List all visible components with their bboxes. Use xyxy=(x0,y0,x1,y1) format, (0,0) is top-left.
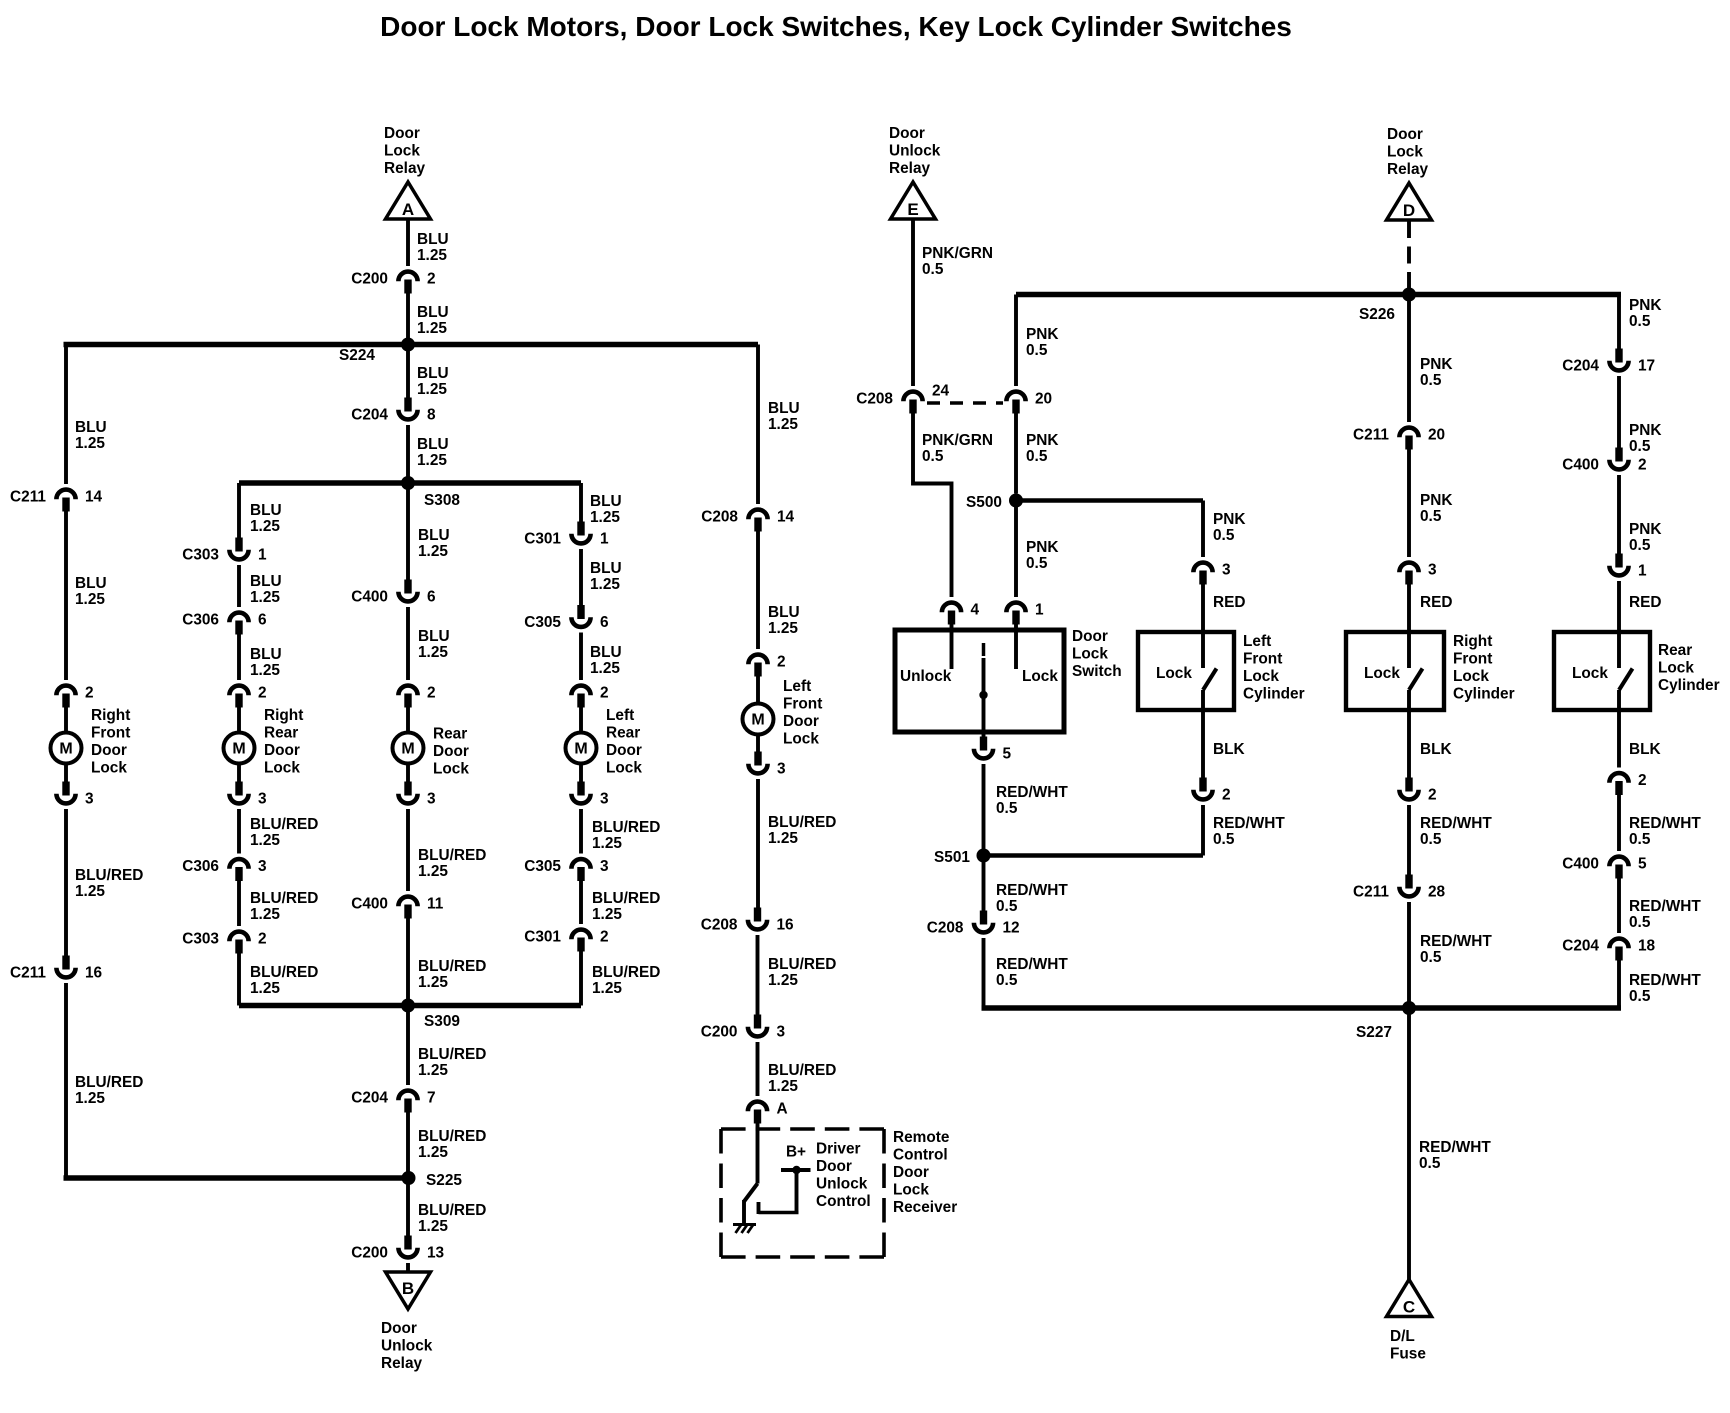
svg-text:C303: C303 xyxy=(182,547,219,564)
wire A to C200-2 xyxy=(406,220,410,267)
svg-text:1.25: 1.25 xyxy=(75,883,105,900)
svg-text:C208: C208 xyxy=(856,391,893,408)
svg-text:6: 6 xyxy=(427,589,436,606)
svg-text:Lock: Lock xyxy=(1453,668,1489,685)
wire B+ to contact xyxy=(795,1170,799,1213)
svg-text:4: 4 xyxy=(971,602,980,619)
motor pin 3 xyxy=(235,782,242,796)
svg-text:1.25: 1.25 xyxy=(768,1078,798,1095)
motor pin 3 xyxy=(404,782,411,796)
svg-text:Lock: Lock xyxy=(433,761,469,778)
svg-text:2: 2 xyxy=(1638,772,1647,789)
splice S227 bus xyxy=(982,1005,1622,1010)
svg-text:BLU: BLU xyxy=(417,365,449,382)
svg-text:PNK: PNK xyxy=(1026,539,1059,556)
svg-text:3: 3 xyxy=(258,858,267,875)
wire pin2 to motor xyxy=(406,707,410,733)
svg-text:Door: Door xyxy=(816,1158,852,1175)
wire pin2 to motor xyxy=(237,707,241,733)
svg-text:Door: Door xyxy=(91,742,127,759)
connector C306 pin 3 xyxy=(229,859,248,869)
svg-text:Right: Right xyxy=(264,707,303,724)
connector C211 pin 16 xyxy=(62,956,69,970)
wire pin5 to S501 xyxy=(982,764,986,856)
svg-text:0.5: 0.5 xyxy=(1213,831,1235,848)
svg-text:0.5: 0.5 xyxy=(1629,914,1651,931)
connector C303 pin 2 xyxy=(229,932,248,942)
wire C204-8 to S308 xyxy=(406,425,410,483)
svg-text:Left: Left xyxy=(1243,633,1271,650)
svg-text:1.25: 1.25 xyxy=(768,620,798,637)
splice S308 bus xyxy=(239,480,581,485)
svg-text:BLU: BLU xyxy=(250,573,282,590)
connector C303 pin 1 xyxy=(235,538,242,552)
svg-text:Front: Front xyxy=(1243,651,1282,668)
svg-text:1.25: 1.25 xyxy=(418,863,448,880)
wire pin2 to motor xyxy=(579,707,583,733)
svg-text:1.25: 1.25 xyxy=(418,1062,448,1079)
wire S501 to C208-12 xyxy=(982,856,986,912)
svg-text:3: 3 xyxy=(85,791,94,808)
svg-text:BLU/RED: BLU/RED xyxy=(418,1128,486,1145)
wire C303-2 to S309 xyxy=(237,953,241,1006)
svg-text:0.5: 0.5 xyxy=(1026,555,1048,572)
wire S224 right drop xyxy=(756,345,760,505)
svg-text:0.5: 0.5 xyxy=(1026,342,1048,359)
connector C208 pin 14 xyxy=(748,510,767,520)
wire pin2 to C211-28 xyxy=(1407,805,1411,876)
cylinder switch blade xyxy=(1203,669,1217,691)
svg-text:1.25: 1.25 xyxy=(250,832,280,849)
svg-text:M: M xyxy=(574,741,587,758)
svg-text:0.5: 0.5 xyxy=(1420,831,1442,848)
svg-text:M: M xyxy=(751,712,764,729)
svg-text:1.25: 1.25 xyxy=(75,435,105,452)
svg-text:C208: C208 xyxy=(927,920,964,937)
svg-text:1.25: 1.25 xyxy=(75,1090,105,1107)
svg-text:Unlock: Unlock xyxy=(381,1338,433,1355)
cylinder pin 2 xyxy=(1405,778,1412,792)
wire C208-12 to S227 xyxy=(982,938,986,1008)
svg-text:2: 2 xyxy=(777,654,786,671)
svg-text:S501: S501 xyxy=(934,849,970,866)
svg-text:S226: S226 xyxy=(1359,306,1395,323)
svg-text:3: 3 xyxy=(427,791,436,808)
svg-text:BLU: BLU xyxy=(250,646,282,663)
svg-text:24: 24 xyxy=(932,383,950,400)
connector C306 pin 6 xyxy=(229,613,248,623)
svg-text:C211: C211 xyxy=(10,965,46,982)
svg-text:1.25: 1.25 xyxy=(590,509,620,526)
svg-text:11: 11 xyxy=(427,896,444,913)
motor pin 2 xyxy=(748,655,767,665)
svg-text:BLU: BLU xyxy=(417,436,449,453)
svg-text:Unlock: Unlock xyxy=(889,143,941,160)
svg-text:Lock: Lock xyxy=(1658,660,1694,677)
svg-text:0.5: 0.5 xyxy=(1420,372,1442,389)
svg-text:1.25: 1.25 xyxy=(768,830,798,847)
svg-text:BLU: BLU xyxy=(590,493,622,510)
relay terminal A xyxy=(386,182,431,219)
svg-text:2: 2 xyxy=(427,271,436,288)
svg-text:RED/WHT: RED/WHT xyxy=(1420,933,1492,950)
svg-text:C204: C204 xyxy=(1562,358,1599,375)
svg-text:1: 1 xyxy=(1035,602,1044,619)
svg-text:RED/WHT: RED/WHT xyxy=(1419,1139,1491,1156)
wire C400-11 to S309 xyxy=(406,918,410,1006)
svg-text:1.25: 1.25 xyxy=(417,320,447,337)
wire pin2 to motor xyxy=(64,707,68,733)
wire S500 drop to pin 3 xyxy=(1201,501,1205,558)
svg-text:Lock: Lock xyxy=(384,143,420,160)
wire blade through box xyxy=(1201,690,1205,779)
wire S224 to C204-8 xyxy=(406,345,410,399)
wire pin3 into box xyxy=(1407,584,1411,669)
svg-text:18: 18 xyxy=(1638,938,1656,955)
svg-text:A: A xyxy=(402,200,414,219)
svg-text:BLU/RED: BLU/RED xyxy=(592,819,660,836)
wire pin4 into box xyxy=(950,624,954,670)
svg-text:0.5: 0.5 xyxy=(1629,313,1651,330)
connector C200 pin 2 xyxy=(398,272,417,282)
svg-text:2: 2 xyxy=(600,929,609,946)
svg-text:2: 2 xyxy=(1428,787,1437,804)
svg-text:C200: C200 xyxy=(351,1245,388,1262)
wire S226 right drop xyxy=(1617,292,1621,350)
svg-text:Cylinder: Cylinder xyxy=(1658,677,1720,694)
svg-text:Right: Right xyxy=(91,707,130,724)
svg-text:Relay: Relay xyxy=(1387,161,1429,178)
wire C208-24 to pin 4 (jog) xyxy=(913,413,952,598)
svg-text:S309: S309 xyxy=(424,1013,460,1030)
svg-text:1.25: 1.25 xyxy=(418,543,448,560)
svg-text:RED: RED xyxy=(1629,594,1662,611)
motor Right Front Door Lock xyxy=(51,733,82,764)
svg-text:2: 2 xyxy=(1638,457,1647,474)
svg-text:0.5: 0.5 xyxy=(1026,448,1048,465)
wire C400-6 to pin 2 xyxy=(406,607,410,680)
svg-text:14: 14 xyxy=(85,489,103,506)
motor pin 3 xyxy=(62,782,69,796)
svg-text:C305: C305 xyxy=(524,614,561,631)
wire pin20 to S500 xyxy=(1014,413,1018,494)
wire pin A into receiver xyxy=(756,1123,760,1184)
svg-text:RED/WHT: RED/WHT xyxy=(1629,972,1701,989)
connector C211 pin 14 xyxy=(56,490,75,500)
svg-text:B+: B+ xyxy=(786,1144,806,1161)
svg-text:C211: C211 xyxy=(1353,427,1389,444)
svg-text:5: 5 xyxy=(1003,746,1012,763)
svg-text:C400: C400 xyxy=(1562,457,1599,474)
connector C208 pin 24 xyxy=(903,392,922,402)
svg-text:1: 1 xyxy=(258,547,267,564)
svg-text:20: 20 xyxy=(1035,391,1052,408)
svg-text:1.25: 1.25 xyxy=(590,576,620,593)
Rear Lock Cylinder box xyxy=(1554,632,1650,710)
svg-text:Door: Door xyxy=(889,125,925,142)
connector C400 pin 5 xyxy=(1609,857,1628,867)
svg-text:1.25: 1.25 xyxy=(418,1218,448,1235)
svg-text:C301: C301 xyxy=(524,531,561,548)
svg-text:PNK: PNK xyxy=(1420,492,1453,509)
svg-text:6: 6 xyxy=(258,612,267,629)
svg-text:Relay: Relay xyxy=(381,1355,423,1372)
switch connector pin 20 xyxy=(1006,392,1025,402)
motor pin 3 xyxy=(754,752,761,766)
dashed wire D to S226 xyxy=(1407,221,1411,288)
connector C301 pin 2 xyxy=(571,930,590,940)
relay terminal B xyxy=(386,1272,431,1309)
svg-text:C211: C211 xyxy=(10,489,46,506)
svg-text:13: 13 xyxy=(427,1245,444,1262)
svg-text:Lock: Lock xyxy=(1572,665,1608,682)
connector C204 pin 8 xyxy=(404,398,411,412)
svg-text:Control: Control xyxy=(816,1193,871,1210)
wire C211-14 to pin 2 xyxy=(64,511,68,681)
motor pin 2 xyxy=(398,686,417,696)
Left Front Lock Cylinder box xyxy=(1138,632,1234,710)
svg-text:C305: C305 xyxy=(524,858,561,875)
wire C204-18 to S227 xyxy=(1617,960,1621,1009)
svg-text:C306: C306 xyxy=(182,858,219,875)
svg-text:PNK: PNK xyxy=(1629,521,1662,538)
cylinder pin 3 xyxy=(1399,563,1418,573)
svg-text:BLU/RED: BLU/RED xyxy=(768,1062,836,1079)
svg-text:0.5: 0.5 xyxy=(1420,949,1442,966)
cylinder switch blade xyxy=(1619,669,1633,691)
svg-text:BLU/RED: BLU/RED xyxy=(418,847,486,864)
svg-text:3: 3 xyxy=(777,761,786,778)
splice S501 xyxy=(984,853,1204,857)
svg-text:Door: Door xyxy=(783,713,819,730)
svg-text:Door: Door xyxy=(384,125,420,142)
splice S225 bus xyxy=(64,1175,409,1180)
svg-text:Door: Door xyxy=(264,742,300,759)
relay terminal D xyxy=(1387,183,1432,220)
svg-text:0.5: 0.5 xyxy=(922,448,944,465)
svg-text:Lock: Lock xyxy=(91,760,127,777)
wire C211-20 to pin 3 xyxy=(1407,449,1411,558)
svg-text:1: 1 xyxy=(1638,563,1647,580)
svg-text:1.25: 1.25 xyxy=(250,980,280,997)
svg-text:BLU: BLU xyxy=(418,628,450,645)
svg-text:1.25: 1.25 xyxy=(592,906,622,923)
svg-text:BLU: BLU xyxy=(417,231,449,248)
svg-text:BLK: BLK xyxy=(1213,741,1245,758)
svg-text:1.25: 1.25 xyxy=(592,980,622,997)
cylinder pin 1 xyxy=(1615,554,1622,568)
wire pin2 to C400-5 xyxy=(1617,794,1621,851)
wire C301-2 to S309 xyxy=(579,951,583,1006)
svg-text:28: 28 xyxy=(1428,884,1446,901)
motor Rear Door Lock xyxy=(393,733,424,764)
dashed link C208-24 to pin 20 xyxy=(927,401,1003,405)
svg-text:RED/WHT: RED/WHT xyxy=(1629,898,1701,915)
svg-text:BLU: BLU xyxy=(768,400,800,417)
svg-text:BLU: BLU xyxy=(417,304,449,321)
svg-text:S500: S500 xyxy=(966,494,1002,511)
svg-text:0.5: 0.5 xyxy=(1420,508,1442,525)
svg-text:0.5: 0.5 xyxy=(1213,527,1235,544)
svg-text:PNK/GRN: PNK/GRN xyxy=(922,432,993,449)
connector C208 pin 16 xyxy=(754,908,761,922)
svg-text:0.5: 0.5 xyxy=(996,898,1018,915)
svg-text:Front: Front xyxy=(783,696,822,713)
wire S500 to pin 1 xyxy=(1014,501,1018,598)
svg-text:C211: C211 xyxy=(1353,884,1389,901)
svg-text:Left: Left xyxy=(783,678,811,695)
svg-text:12: 12 xyxy=(1003,920,1020,937)
svg-text:Lock: Lock xyxy=(893,1182,929,1199)
svg-text:RED/WHT: RED/WHT xyxy=(996,784,1068,801)
connector C305 pin 3 xyxy=(571,859,590,869)
connector C211 pin 20 xyxy=(1399,428,1418,438)
switch pin 4 xyxy=(942,603,961,613)
svg-text:Relay: Relay xyxy=(384,160,426,177)
svg-text:BLU/RED: BLU/RED xyxy=(768,956,836,973)
wire C400-5 to C204-18 xyxy=(1617,878,1621,934)
svg-text:1.25: 1.25 xyxy=(417,247,447,264)
svg-text:Driver: Driver xyxy=(816,1141,861,1158)
splice S226 bus xyxy=(1016,292,1621,297)
wire pin2 to motor xyxy=(756,676,760,704)
svg-text:Door: Door xyxy=(606,742,642,759)
ground xyxy=(733,1223,756,1226)
switch toggle xyxy=(982,643,986,656)
cylinder switch blade xyxy=(1409,669,1423,691)
splice S500 xyxy=(1016,498,1203,502)
wire C400-2 to pin 1 xyxy=(1617,475,1621,555)
svg-text:Control: Control xyxy=(893,1147,948,1164)
splice S309 bus xyxy=(239,1003,581,1008)
svg-text:6: 6 xyxy=(600,614,609,631)
wire pin3 to C211-16 xyxy=(64,809,68,957)
motor pin 2 xyxy=(571,686,590,696)
svg-text:Lock: Lock xyxy=(1022,668,1058,685)
svg-text:0.5: 0.5 xyxy=(1629,438,1651,455)
wire C208-14 to pin 2 xyxy=(756,531,760,650)
svg-text:0.5: 0.5 xyxy=(922,261,944,278)
svg-text:Door: Door xyxy=(1072,628,1108,645)
wire C208-16 to C200-3 xyxy=(756,935,760,1016)
svg-text:C208: C208 xyxy=(701,917,738,934)
svg-text:1.25: 1.25 xyxy=(250,906,280,923)
svg-text:Rear: Rear xyxy=(606,725,640,742)
wire pin1 into box xyxy=(1617,581,1621,668)
svg-text:Lock: Lock xyxy=(783,731,819,748)
svg-text:BLU/RED: BLU/RED xyxy=(592,964,660,981)
svg-text:C200: C200 xyxy=(351,271,388,288)
wire C200-13 to B xyxy=(406,1263,410,1273)
svg-text:17: 17 xyxy=(1638,358,1655,375)
svg-text:E: E xyxy=(907,200,918,219)
svg-text:8: 8 xyxy=(427,407,436,424)
svg-text:Right: Right xyxy=(1453,633,1492,650)
svg-text:Door: Door xyxy=(381,1320,417,1337)
wire S226 to C211-20 xyxy=(1407,295,1411,423)
svg-text:1.25: 1.25 xyxy=(250,589,280,606)
connector C400 pin 11 xyxy=(398,897,417,907)
cylinder pin 2 xyxy=(1609,773,1628,783)
wire C306-6 to pin 2 xyxy=(237,634,241,681)
svg-text:Door Lock Motors, Door Lock Sw: Door Lock Motors, Door Lock Switches, Ke… xyxy=(380,11,1292,42)
wire blade to ground xyxy=(742,1200,746,1223)
svg-text:RED: RED xyxy=(1213,594,1246,611)
svg-text:5: 5 xyxy=(1638,856,1647,873)
svg-text:C400: C400 xyxy=(351,896,388,913)
svg-text:Rear: Rear xyxy=(264,725,298,742)
svg-text:0.5: 0.5 xyxy=(1629,537,1651,554)
svg-text:2: 2 xyxy=(258,931,267,948)
svg-text:RED/WHT: RED/WHT xyxy=(1420,815,1492,832)
wire S309 to C204-7 xyxy=(406,1006,410,1086)
svg-text:M: M xyxy=(401,741,414,758)
svg-text:PNK: PNK xyxy=(1026,326,1059,343)
svg-text:BLU: BLU xyxy=(250,502,282,519)
connector C211 pin 28 xyxy=(1405,875,1412,889)
cylinder pin 2 xyxy=(1199,778,1206,792)
svg-text:BLU/RED: BLU/RED xyxy=(250,964,318,981)
svg-text:Door: Door xyxy=(893,1164,929,1181)
connector C208 pin 12 xyxy=(980,911,987,925)
wire pin3 to C400-11 xyxy=(406,809,410,891)
svg-text:C204: C204 xyxy=(351,1090,388,1107)
motor Left Rear Door Lock xyxy=(566,733,597,764)
svg-text:BLU: BLU xyxy=(768,604,800,621)
svg-text:3: 3 xyxy=(258,791,267,808)
svg-text:Unlock: Unlock xyxy=(900,668,952,685)
connector C305 pin 6 xyxy=(577,605,584,619)
svg-text:0.5: 0.5 xyxy=(1629,831,1651,848)
wire S227 to fuse C xyxy=(1407,1008,1411,1280)
switch pin 1 xyxy=(1006,603,1025,613)
svg-text:Remote: Remote xyxy=(893,1129,950,1146)
wire S224 left drop xyxy=(64,345,68,485)
svg-text:RED/WHT: RED/WHT xyxy=(1213,815,1285,832)
svg-text:RED/WHT: RED/WHT xyxy=(996,956,1068,973)
svg-text:Cylinder: Cylinder xyxy=(1243,686,1305,703)
wire C200-2 to S224 xyxy=(406,292,410,345)
svg-text:BLK: BLK xyxy=(1420,741,1452,758)
svg-text:1.25: 1.25 xyxy=(592,835,622,852)
svg-text:1.25: 1.25 xyxy=(250,518,280,535)
svg-text:PNK/GRN: PNK/GRN xyxy=(922,245,993,262)
svg-text:2: 2 xyxy=(427,685,436,702)
svg-text:2: 2 xyxy=(1222,787,1231,804)
wire C200-3 to pin A xyxy=(756,1042,760,1096)
svg-text:BLU/RED: BLU/RED xyxy=(418,958,486,975)
wire E to C208-24 xyxy=(911,220,915,387)
svg-text:RED/WHT: RED/WHT xyxy=(1629,815,1701,832)
svg-text:C400: C400 xyxy=(351,589,388,606)
wire motor to pin 3 xyxy=(579,764,583,783)
svg-text:1.25: 1.25 xyxy=(768,972,798,989)
svg-text:Lock: Lock xyxy=(1243,668,1279,685)
svg-text:Front: Front xyxy=(1453,651,1492,668)
svg-text:Switch: Switch xyxy=(1072,663,1122,680)
svg-text:BLU/RED: BLU/RED xyxy=(418,1202,486,1219)
wire C301-1 to C305-6 xyxy=(579,549,583,606)
receiver switch blade xyxy=(744,1184,758,1202)
svg-text:C204: C204 xyxy=(351,407,388,424)
svg-text:C303: C303 xyxy=(182,931,219,948)
Door Lock Switch box xyxy=(895,630,1064,732)
svg-text:C306: C306 xyxy=(182,612,219,629)
wire pin3 to C208-16 xyxy=(756,779,760,909)
connector C400 pin 2 xyxy=(1615,448,1622,462)
svg-text:16: 16 xyxy=(85,965,102,982)
svg-text:D: D xyxy=(1403,201,1415,220)
